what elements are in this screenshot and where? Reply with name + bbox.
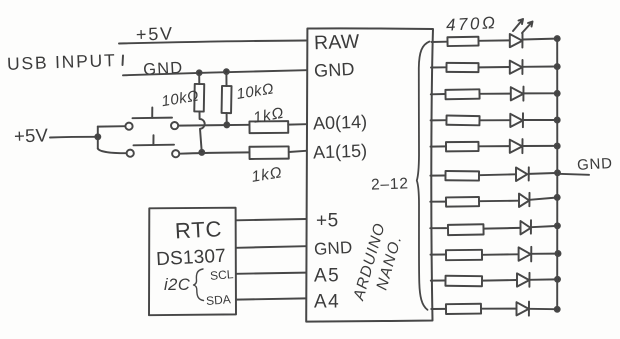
wire RTC SCL to A5 (236, 273, 306, 274)
wire 10k-right bottom to A0 node (226, 113, 228, 123)
wire 10k-left bottom hop over A0 to A1 node (200, 112, 205, 151)
LED row 3 (431, 87, 560, 101)
svg-text:1kΩ: 1kΩ (252, 105, 286, 127)
LED row 9 (431, 247, 561, 262)
Arduino Nano box (306, 28, 433, 321)
wire +5V to switch junction (50, 136, 96, 139)
wire RTC GND (236, 246, 306, 248)
LED light arrows (513, 19, 533, 33)
wire +5V rail to RAW (119, 41, 306, 44)
wire SW1 to resistor 1k upper (178, 124, 249, 127)
switch SW2 (push button) (127, 135, 180, 157)
svg-text:i2C: i2C (164, 276, 190, 294)
svg-text:USB INPUT: USB INPUT (7, 50, 117, 74)
wire GND rail to Arduino GND (123, 70, 306, 75)
label colon after USB INPUT (122, 56, 125, 66)
svg-text:1kΩ: 1kΩ (250, 164, 283, 186)
resistor R-1k lower (249, 146, 288, 159)
RTC module box (149, 208, 236, 316)
junction dot on A0 line (224, 122, 229, 127)
wire RTC SDA to A4 (236, 298, 306, 299)
svg-text:A0(14): A0(14) (313, 112, 368, 134)
junction dot 10k-right to GND rail (224, 69, 229, 74)
junction dot on A1 line (199, 150, 204, 155)
wire to switch SW1 left (98, 125, 126, 127)
svg-text:GND: GND (143, 59, 184, 79)
svg-text:470Ω: 470Ω (446, 13, 498, 35)
wire to switch SW2 left (98, 149, 127, 154)
resistor R-1k upper (249, 121, 288, 133)
LED row 5 (431, 139, 560, 153)
wire GND tap (559, 174, 590, 175)
wire 1k lower to A1 pin (289, 151, 306, 152)
wire GND bus (right vertical rail) (556, 39, 558, 310)
svg-text:GND: GND (577, 155, 614, 174)
LED row 2 (431, 60, 560, 74)
svg-text:10kΩ: 10kΩ (235, 80, 275, 103)
svg-text:SCL: SCL (210, 267, 235, 283)
svg-text:+5V: +5V (14, 124, 49, 146)
svg-text:SDA: SDA (206, 292, 232, 308)
svg-text:2–12: 2–12 (371, 175, 409, 193)
wire junction vertical to both switches (97, 127, 99, 149)
brace i2C bus (194, 269, 204, 301)
wire 1k upper to A0 pin (288, 123, 306, 125)
svg-text:RAW: RAW (314, 31, 361, 55)
LED row 7 (430, 193, 559, 207)
resistor R-10k right (vertical) (222, 74, 232, 114)
resistor R-10k left (vertical) (194, 75, 204, 112)
svg-text:+5: +5 (316, 211, 339, 232)
LED row 11 (431, 302, 559, 316)
svg-text:RTC: RTC (174, 216, 222, 243)
wire RTC +5 (236, 219, 306, 220)
LED row 1: wire, resistor, LED D1, junction (432, 34, 560, 48)
switch SW1 (push button) (125, 108, 178, 130)
wire SW2 to resistor 1k lower (179, 152, 249, 153)
LED row 10 (431, 273, 560, 287)
svg-text:DS1307: DS1307 (156, 246, 227, 271)
LED row 8 (430, 220, 560, 235)
LED row 4 (431, 113, 560, 127)
svg-text:A1(15): A1(15) (313, 141, 368, 163)
svg-text:A4: A4 (314, 292, 340, 313)
brace pins 2-12 (417, 42, 430, 310)
LED row 6 (GND tap row) (430, 167, 560, 181)
svg-text:GND: GND (314, 59, 356, 81)
junction dot switch feed (95, 134, 100, 139)
junction dot 10k-left to GND rail (197, 70, 202, 75)
svg-text:GND: GND (314, 238, 353, 259)
svg-text:A5: A5 (314, 266, 340, 287)
